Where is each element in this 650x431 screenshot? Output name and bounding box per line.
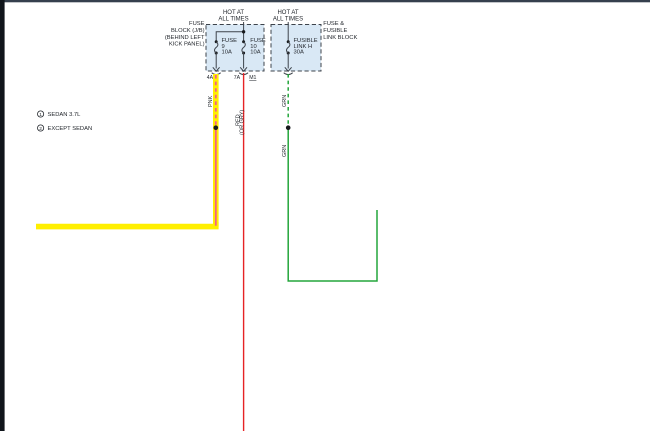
svg-text:1: 1 bbox=[39, 112, 42, 118]
wire PNK dashed segment bbox=[215, 75, 217, 128]
fusible link H 30A bbox=[287, 38, 318, 56]
svg-text:(BEHIND LEFT: (BEHIND LEFT bbox=[165, 35, 205, 41]
svg-text:ALL TIMES: ALL TIMES bbox=[273, 17, 303, 23]
svg-text:SEDAN 3.7L: SEDAN 3.7L bbox=[48, 112, 82, 118]
wire fuse9 to pin 4A bbox=[215, 53, 217, 69]
wire RED (OR GRY) from fuse 10 down whole page bbox=[243, 73, 245, 431]
fuse block J/B left caption bbox=[165, 21, 205, 47]
wire GRN solid down to corner and across to IPDM pin 36 bbox=[288, 128, 377, 281]
svg-text:2: 2 bbox=[39, 126, 42, 132]
svg-text:EXCEPT SEDAN: EXCEPT SEDAN bbox=[48, 126, 93, 132]
wire PNK solid vertical segment bbox=[215, 128, 217, 226]
pin arrow 7A, connector M1 bbox=[234, 67, 257, 81]
pin arrow fusible link output bbox=[284, 67, 293, 74]
svg-text:10A: 10A bbox=[250, 50, 260, 56]
svg-text:LINK BLOCK: LINK BLOCK bbox=[323, 35, 357, 41]
svg-text:GRN: GRN bbox=[282, 95, 288, 107]
svg-text:7A: 7A bbox=[234, 75, 241, 81]
wire fuse10 to pin 7A bbox=[243, 53, 245, 69]
svg-text:10A: 10A bbox=[222, 50, 232, 56]
pin arrow 4A bbox=[207, 67, 221, 81]
fuse F10 10A bbox=[242, 38, 266, 56]
fuse and fusible link block box bbox=[271, 10, 321, 71]
fuse F9 10A bbox=[215, 38, 238, 56]
wire feed into fusible link bbox=[287, 22, 289, 42]
svg-text:BLOCK (J/B): BLOCK (J/B) bbox=[171, 28, 205, 34]
svg-text:FUSE: FUSE bbox=[189, 21, 205, 27]
svg-text:M1: M1 bbox=[249, 75, 256, 81]
svg-text:ALL TIMES: ALL TIMES bbox=[218, 17, 248, 23]
fuse and fusible link block right caption bbox=[323, 21, 357, 41]
svg-text:PNK: PNK bbox=[208, 95, 214, 107]
page border top bbox=[0, 0, 650, 2]
wire feed into fuse block bbox=[216, 22, 245, 42]
legend note 2: EXCEPT SEDAN bbox=[38, 125, 93, 132]
svg-text:HOT AT: HOT AT bbox=[223, 10, 244, 16]
svg-text:4A: 4A bbox=[207, 75, 214, 81]
svg-text:KICK PANEL): KICK PANEL) bbox=[169, 42, 205, 48]
legend note 1: SEDAN 3.7L bbox=[38, 111, 82, 118]
svg-text:(OR GRY): (OR GRY) bbox=[239, 110, 245, 135]
wire GRN dashed from fusible link bbox=[287, 74, 289, 128]
svg-text:FUSE &: FUSE & bbox=[323, 21, 344, 27]
splice dot on GRN wire bbox=[286, 125, 291, 130]
fuse block J/B box bbox=[206, 10, 264, 71]
page border left bbox=[0, 0, 5, 431]
splice dot on PNK wire bbox=[214, 125, 219, 130]
svg-text:HOT AT: HOT AT bbox=[277, 10, 298, 16]
svg-text:GRN: GRN bbox=[282, 145, 288, 157]
wire fusible link to block edge bbox=[287, 53, 289, 69]
svg-text:30A: 30A bbox=[294, 50, 304, 56]
highlighted PNK wire from fuse 9 to clutch switch (yellow band) bbox=[36, 74, 219, 227]
svg-text:FUSIBLE: FUSIBLE bbox=[323, 28, 347, 34]
